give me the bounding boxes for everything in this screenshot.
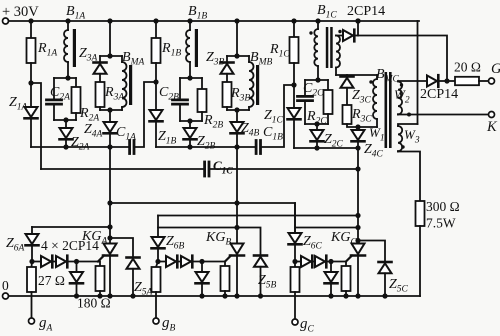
node L3C at KG_C <box>355 225 360 230</box>
capacitor C2C <box>298 80 313 124</box>
diode Z5B <box>254 256 267 297</box>
svg-text:180 Ω: 180 Ω <box>77 296 111 311</box>
polarity dot W1 <box>369 80 372 83</box>
resistor R2B <box>198 78 207 121</box>
node stub A <box>107 235 112 240</box>
svg-text:2CP14: 2CP14 <box>420 87 458 102</box>
node P_B <box>153 79 158 84</box>
thyristor KG_C <box>352 244 365 255</box>
transformer B1C primary <box>314 21 318 80</box>
transformer B1B winding <box>186 21 190 78</box>
diode Z6B <box>152 216 165 262</box>
diode Z4B <box>231 110 244 147</box>
wire bottom bus <box>9 295 421 297</box>
diode Z3B <box>221 56 234 82</box>
polarity dot W2 bottom <box>407 113 411 117</box>
wire W3 bottom to 300 ohm <box>398 152 420 202</box>
wire tank C bottom <box>305 123 328 125</box>
node bus shunt A <box>74 293 79 298</box>
node bus KG_C <box>355 293 360 298</box>
node P_A <box>28 80 33 85</box>
diode Z6A <box>26 227 39 262</box>
wire tank A bottom <box>54 119 76 121</box>
thyristor KG_B <box>231 244 244 255</box>
transformer B1C secondary <box>336 36 340 76</box>
node gate row C mid <box>328 259 333 264</box>
core B1B <box>195 29 198 67</box>
node L2 at KG_C <box>355 213 360 218</box>
svg-text:0: 0 <box>2 278 9 293</box>
wire L3A Z6A to KG_A <box>32 226 110 228</box>
capacitor C1C <box>203 162 206 176</box>
polarity dot B1C secondary <box>338 30 341 33</box>
wire gate row A <box>32 261 100 263</box>
diode Z6C <box>289 203 302 262</box>
node bus KG_B <box>234 293 239 298</box>
wire R3C to node W <box>347 124 358 127</box>
core B1A <box>73 29 76 67</box>
resistor gate B <box>152 262 161 319</box>
resistor 180 ohm <box>96 262 105 297</box>
core B_MC <box>385 72 388 148</box>
diode 2CP14 series A2 <box>56 256 66 267</box>
wire rail B <box>156 146 256 148</box>
resistor R3A <box>96 82 105 110</box>
resistor R2A <box>72 78 81 120</box>
wire tank B top <box>180 77 202 79</box>
diode Z4C <box>352 127 365 148</box>
node rail C junctions <box>314 145 319 150</box>
resistor R1C <box>290 21 299 85</box>
wire gate row B <box>158 261 225 263</box>
diode 2CP14 series C2 <box>315 256 325 267</box>
diode Z2C <box>311 124 324 148</box>
wire L2 Z6B top to KG_C <box>158 215 358 217</box>
diode Z4A <box>104 110 117 147</box>
node stub C <box>355 238 360 243</box>
svg-text:2CP14: 2CP14 <box>347 4 385 19</box>
diode shunt B <box>196 262 209 297</box>
diode Z5A <box>127 258 140 297</box>
diode shunt C <box>325 262 338 297</box>
node rail B junctions <box>187 144 192 149</box>
terminal +30V <box>3 18 9 24</box>
wire jog P_A to C1C rail <box>31 83 41 169</box>
svg-text:7.5W: 7.5W <box>426 216 456 231</box>
polarity dot B1C primary <box>309 31 312 34</box>
node bus shunt C <box>328 293 333 298</box>
wire +30V rail <box>9 20 420 22</box>
diode Z3A <box>94 56 107 82</box>
diode Z3C <box>341 75 354 105</box>
node bus Z5B <box>258 293 263 298</box>
thyristor KG_A <box>104 244 117 255</box>
wire B_MA loop bottom <box>100 109 122 111</box>
svg-text:27 Ω: 27 Ω <box>38 273 65 288</box>
capacitor C1B <box>255 141 258 154</box>
core B_MB <box>256 65 259 105</box>
node L1 junctions <box>107 200 112 205</box>
wire rail corner down <box>417 21 419 124</box>
node rail junctions <box>28 18 33 23</box>
wire tank B bottom <box>180 120 202 122</box>
transformer B1A winding <box>64 21 68 77</box>
svg-text:300 Ω: 300 Ω <box>426 199 460 214</box>
node bus KG_A <box>107 293 112 298</box>
node L3A at KG_A <box>107 224 112 229</box>
wire 300 ohm to bus <box>419 226 421 296</box>
resistor R2C <box>324 80 333 124</box>
svg-text:G: G <box>491 61 500 77</box>
node gate row A left <box>29 259 34 264</box>
wire W3 top <box>398 124 418 126</box>
diode Z1A <box>25 83 38 147</box>
wire K line <box>398 114 488 116</box>
wire B_MB loop top <box>227 55 249 57</box>
wire B_MB feed <box>236 21 238 56</box>
diode Z2B <box>184 121 197 147</box>
transformer B_MB winding <box>249 56 254 110</box>
diode 2CP14 output B <box>427 75 447 87</box>
resistor 300 ohm <box>416 201 425 226</box>
diode 2CP14 series C1 <box>301 256 311 267</box>
wire L3C Z6C to KG_C <box>295 227 358 229</box>
diode 2CP14 series B2 <box>181 256 191 267</box>
wire secondary bottom to W1 <box>336 74 377 76</box>
node gate row B left <box>155 259 160 264</box>
capacitor C2A <box>47 78 62 120</box>
transformer B_MA winding <box>122 56 127 110</box>
node gate row C left <box>292 259 297 264</box>
wire KG_B anode line <box>236 147 238 244</box>
node rail to rectifier <box>355 18 360 23</box>
wire rail C <box>294 147 358 149</box>
node gate row B mid <box>199 259 204 264</box>
terminal gA <box>29 318 35 324</box>
node bus Z5A <box>130 293 135 298</box>
node W1/Z4C <box>355 124 360 129</box>
wire gate row C <box>295 261 346 263</box>
polarity dot W3 <box>401 145 404 148</box>
node C1C rail to KG_C line <box>355 166 360 171</box>
wire W1 bottom <box>358 126 377 128</box>
wire L3B Z6B to Z5B <box>158 228 261 256</box>
wire B_MA loop top <box>100 55 122 57</box>
terminal G <box>489 78 495 84</box>
node bus Z5C <box>382 293 387 298</box>
node bus shunt B <box>199 293 204 298</box>
diode 2CP14 series B1 <box>166 256 176 267</box>
terminal 0 <box>3 293 9 299</box>
wire stub KG_C to Z5C <box>358 241 385 263</box>
wire C1B to P_C riser <box>261 85 295 147</box>
terminal K <box>489 112 495 118</box>
capacitor C1A <box>128 141 131 154</box>
resistor 180 ohm B <box>221 262 230 297</box>
node P_C <box>291 82 296 87</box>
resistor R1A <box>27 21 36 83</box>
terminal gC <box>292 319 298 325</box>
wire rectifier output to OR node <box>358 36 447 82</box>
wire B_MA feed <box>109 21 111 56</box>
resistor R1B <box>152 21 161 82</box>
svg-text:+ 30V: + 30V <box>2 4 39 20</box>
node L3B at KG_B <box>234 225 239 230</box>
node bus 180 ohm <box>97 293 102 298</box>
core B1C <box>326 27 329 68</box>
wire tank A top <box>54 77 76 79</box>
resistor 27 ohm <box>27 262 36 319</box>
wire stub KG_A to Z5A <box>110 238 133 258</box>
node bus 180B <box>222 293 227 298</box>
transformer B_MC winding W3 <box>398 126 402 152</box>
node OR output <box>444 78 449 83</box>
resistor gate C <box>291 262 300 320</box>
terminal gB <box>153 318 159 324</box>
node gate row A mid <box>74 259 79 264</box>
wire C1C rail right <box>210 168 358 170</box>
node rail A junctions <box>63 144 68 149</box>
wire C1C rail left <box>41 168 203 170</box>
resistor R3B <box>223 82 232 110</box>
wire W2 top to diode <box>398 80 427 82</box>
diode Z2A <box>60 120 73 147</box>
capacitor C2B <box>173 78 188 121</box>
wire tank C top <box>305 79 328 81</box>
wire KG_A anode line <box>109 147 111 244</box>
wire rail A <box>31 146 129 148</box>
transformer B_MC winding W1 <box>373 75 377 127</box>
resistor 180 ohm C <box>342 262 351 297</box>
wire C1A to P_B riser <box>134 82 156 147</box>
wire KG_C anode line <box>357 148 359 244</box>
diode 2CP14 output A <box>336 30 358 42</box>
node bus 180C <box>343 293 348 298</box>
core B_MA <box>129 65 132 105</box>
diode 2CP14 series A1 <box>41 256 51 267</box>
wire anode bus L1 <box>110 203 295 233</box>
svg-text:20 Ω: 20 Ω <box>454 60 481 75</box>
resistor R3C <box>343 105 352 124</box>
diode Z5C <box>379 262 392 296</box>
diode shunt A <box>70 262 83 297</box>
diode Z1B <box>150 82 163 147</box>
resistor 20 ohm <box>447 77 488 85</box>
diode Z1C <box>288 85 301 148</box>
polarity dot W2 <box>400 83 403 86</box>
svg-text:K: K <box>486 119 498 135</box>
transformer B_MC winding W2 <box>398 82 402 115</box>
wire B_MB loop bottom <box>227 109 249 111</box>
